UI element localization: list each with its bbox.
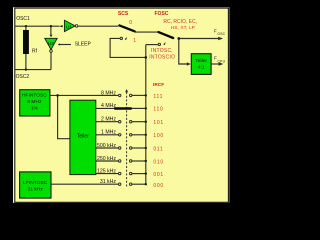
svg-text:010: 010 xyxy=(153,159,163,165)
wire 4 MHz row xyxy=(96,107,115,109)
svg-text:Teiler: Teiler xyxy=(77,134,89,140)
contact row5 right xyxy=(130,147,132,149)
node: OSC1-crystal junction xyxy=(25,25,27,27)
svg-text:125 kHz: 125 kHz xyxy=(97,168,116,174)
node bus row5 xyxy=(145,147,147,149)
op-amp U1 (oscillator amplifier) xyxy=(64,20,75,31)
wire 250 kHz row xyxy=(96,160,119,162)
wire crystal top stub xyxy=(25,26,27,30)
node bus-SCS loop junction xyxy=(145,56,148,59)
node bus row3 xyxy=(145,121,147,123)
svg-text:000: 000 xyxy=(153,183,163,189)
svg-text:31 kHz: 31 kHz xyxy=(100,179,117,185)
contact row1 right xyxy=(130,94,132,96)
box Teiler (postscaler divider) xyxy=(70,100,96,174)
node bus row1 xyxy=(145,94,147,96)
box LFINTOSC xyxy=(20,172,51,198)
contact row5 left xyxy=(119,147,121,149)
svg-text:INTOSC,: INTOSC, xyxy=(151,48,173,54)
wire 500 kHz row xyxy=(96,147,119,149)
wire row6 contact to bus xyxy=(132,160,146,162)
wire row8 contact to bus xyxy=(132,183,146,185)
arrowhead Fosc output xyxy=(218,37,223,40)
contact row3 right xyxy=(130,121,132,123)
svg-text:8 MHz: 8 MHz xyxy=(27,99,42,105)
svg-text:2 MHz: 2 MHz xyxy=(101,117,116,123)
wire crystal bottom stub xyxy=(25,54,27,70)
wire FOSC common to Fosc output xyxy=(179,38,220,40)
wire U2 output to OSC2 xyxy=(50,52,52,69)
node: OSC2-crystal junction xyxy=(25,68,27,70)
node bus row4 xyxy=(145,134,147,136)
wire bus top to INTOSC contact xyxy=(146,44,158,46)
contact row8 right xyxy=(130,183,132,185)
background canvas xyxy=(0,0,237,212)
bus junction dots xyxy=(145,94,147,185)
wire internal bus vertical xyxy=(145,45,147,185)
wire 31 kHz row from LFINTOSC xyxy=(51,183,118,185)
wire HFINTOSC branch into Teiler xyxy=(58,95,70,138)
wire HFINTOSC output 8 MHz row xyxy=(50,94,119,96)
contact row6 right xyxy=(130,160,132,162)
svg-text:HFINTOSC: HFINTOSC xyxy=(22,93,47,99)
wire 1 MHz row xyxy=(96,134,119,136)
svg-text:500 kHz: 500 kHz xyxy=(97,143,116,149)
node FOSC common junction xyxy=(177,37,180,40)
IRCF selector contacts: left column xyxy=(119,94,132,185)
svg-text:110: 110 xyxy=(153,107,163,113)
svg-text:INTOSCIO: INTOSCIO xyxy=(149,54,175,60)
wire row7 contact to bus xyxy=(132,173,146,175)
svg-text:CPU: CPU xyxy=(218,59,226,63)
svg-text:8 MHz: 8 MHz xyxy=(101,90,116,96)
node bus row2 xyxy=(145,107,147,109)
svg-text:U2: U2 xyxy=(48,41,54,47)
chip border frame xyxy=(15,8,229,202)
svg-text:001: 001 xyxy=(153,172,163,178)
wire 2 MHz row xyxy=(96,121,119,123)
svg-text:LFINTOSC: LFINTOSC xyxy=(23,180,48,186)
wire U1 output to SCS contact 0 xyxy=(78,25,118,27)
contact row3 left xyxy=(119,121,121,123)
node: OSC1-U2 junction xyxy=(50,25,52,27)
svg-text:HS, XT, LP: HS, XT, LP xyxy=(171,25,195,30)
svg-text:4:1: 4:1 xyxy=(198,65,205,71)
contact row8 left xyxy=(119,183,121,185)
svg-text:1: 1 xyxy=(133,38,136,44)
svg-text:Rf: Rf xyxy=(32,49,38,55)
wire SLEEP arrow line xyxy=(59,44,71,46)
node bus row6 xyxy=(145,160,147,162)
svg-text:OSC: OSC xyxy=(217,32,225,36)
svg-text:1%: 1% xyxy=(31,105,39,111)
svg-text:SLEEP: SLEEP xyxy=(75,42,92,48)
switch SCS blade xyxy=(119,25,134,31)
switch IRCF closed blade row2 (4 MHz selected) xyxy=(115,107,131,109)
contact row1 left xyxy=(119,94,121,96)
contact row4 left xyxy=(119,134,121,136)
svg-text:100: 100 xyxy=(153,133,163,139)
wire 125 kHz row xyxy=(96,173,119,175)
wire OSC1 pin to U1 input xyxy=(15,25,60,27)
chip body (yellow) xyxy=(13,7,229,203)
svg-text:1 MHz: 1 MHz xyxy=(101,130,116,136)
arrowhead Fcpu output xyxy=(219,62,224,65)
buffer U2 (sleep tri-state) xyxy=(45,38,58,49)
switch FOSC throw INTOSC contact xyxy=(158,43,160,45)
contact row7 left xyxy=(119,172,121,174)
wire row2 contact to bus xyxy=(132,107,146,109)
svg-text:OSC1: OSC1 xyxy=(16,16,30,22)
svg-text:31 kHz: 31 kHz xyxy=(28,186,44,192)
svg-text:011: 011 xyxy=(153,146,163,152)
svg-text:Teiler: Teiler xyxy=(195,58,207,64)
wire row1 contact to bus xyxy=(132,94,146,96)
dashed switch gang line IRCF xyxy=(126,92,128,188)
wire SCS common to FOSC contact xyxy=(135,31,158,33)
svg-text:OSC2: OSC2 xyxy=(16,74,30,80)
switch FOSC blade xyxy=(158,32,173,38)
box HFINTOSC xyxy=(20,90,50,116)
node bus row7 xyxy=(145,172,147,174)
svg-text:IRCF: IRCF xyxy=(153,82,164,88)
wire row3 contact to bus xyxy=(132,121,146,123)
wire U2 input stub xyxy=(50,26,52,35)
node HFINTOSC output junction xyxy=(56,94,59,97)
contact row7 right xyxy=(130,172,132,174)
svg-text:U1: U1 xyxy=(66,24,72,30)
svg-text:101: 101 xyxy=(153,120,163,126)
node bus row8 corner xyxy=(145,183,147,185)
wire row5 contact to bus xyxy=(132,147,146,149)
wire divider 4:1 output Fcpu xyxy=(211,63,221,65)
switch SCS throw-1 contact xyxy=(120,37,122,39)
svg-text:FOSC: FOSC xyxy=(155,11,169,17)
svg-text:111: 111 xyxy=(153,94,163,100)
svg-text:SCS: SCS xyxy=(118,11,129,17)
SLEEP arrowhead xyxy=(58,43,61,45)
wire OSC2 pin xyxy=(15,69,51,71)
wire FOSC common down to divider xyxy=(179,39,189,65)
arrowhead top of gang line xyxy=(125,89,128,92)
svg-text:0: 0 xyxy=(129,20,132,26)
contact row4 right xyxy=(130,134,132,136)
crystal (black bar) xyxy=(23,30,29,54)
svg-text:250 kHz: 250 kHz xyxy=(97,156,116,162)
wire row4 contact to bus xyxy=(132,134,146,136)
arrowhead into divider xyxy=(187,62,191,65)
divider box Teiler 4:1 xyxy=(191,54,211,75)
red config labels xyxy=(118,11,197,189)
wire SCS throw-1 loop to internal bus xyxy=(110,38,146,57)
contact row6 left xyxy=(119,160,121,162)
